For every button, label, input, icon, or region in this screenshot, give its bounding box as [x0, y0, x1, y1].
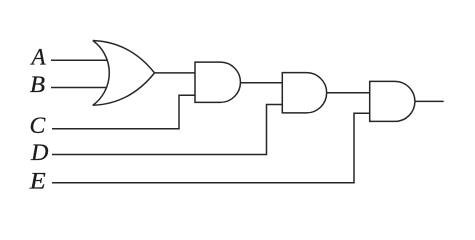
- svg-text:D: D: [30, 141, 48, 166]
- svg-text:E: E: [29, 169, 46, 194]
- svg-text:C: C: [30, 113, 46, 139]
- svg-text:A: A: [30, 44, 47, 69]
- svg-text:B: B: [30, 73, 46, 98]
